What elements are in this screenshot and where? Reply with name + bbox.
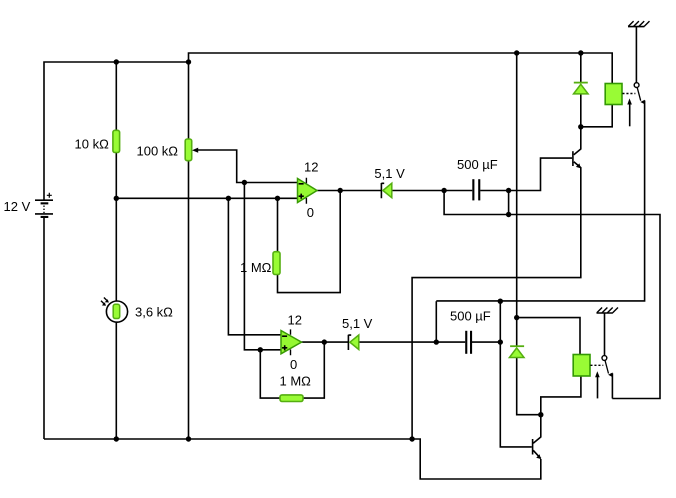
wire left rail from battery + up and across top: [44, 62, 189, 200]
junction node: [409, 436, 414, 441]
junction node: [441, 188, 446, 193]
zener Z1 triangle: [383, 183, 392, 198]
junction node: [275, 196, 280, 201]
svg-text:500 µF: 500 µF: [457, 157, 498, 172]
ground top right: [628, 21, 650, 83]
junction node: [434, 339, 439, 344]
junction node: [114, 436, 119, 441]
wire rail below D4 to Q2 collector node: [517, 358, 541, 415]
transistor Q1 base bar: [572, 151, 574, 166]
photoresistor LDR circle: [106, 301, 127, 322]
junction node: [338, 188, 343, 193]
junction node: [114, 59, 119, 64]
switch S1 left contact arrow: [627, 98, 632, 104]
svg-text:10 kΩ: 10 kΩ: [75, 137, 110, 152]
svg-text:1 MΩ: 1 MΩ: [280, 374, 312, 389]
switch S1 right contact arrow: [640, 100, 645, 105]
switch S2 pivot circle: [602, 356, 607, 361]
switch S2 blade: [605, 360, 609, 374]
op-amp U1 power ticks: [305, 178, 307, 204]
zener Z2 cathode bar with hook: [348, 335, 351, 350]
relay K2 coil: [573, 355, 590, 377]
wire +12 rail x=516 down to diode D4: [516, 53, 518, 346]
wire zener to cap C1: [392, 190, 473, 192]
wire Q1 collector: [574, 127, 581, 155]
switch S1 dashed link to relay K1: [622, 93, 635, 95]
wire Q2 emitter diagonal: [533, 450, 541, 458]
wire LDR bottom lead: [115, 322, 117, 439]
switch S1 left contact stub: [629, 104, 631, 127]
svg-text:1 MΩ: 1 MΩ: [240, 260, 272, 275]
op-amp U2 plus marker: [282, 345, 287, 350]
relay K1 coil: [605, 84, 622, 105]
battery B1 plate short thick top: [41, 202, 49, 204]
wire relay K2 bottom to Q2 collector node: [541, 376, 581, 415]
wire battery minus down to bottom rail: [43, 218, 45, 440]
op-amp U1 minus marker: [299, 183, 304, 185]
wire divider node down to U2 - input: [228, 198, 281, 334]
op-amp U1 triangle: [298, 179, 318, 203]
op-amp U2 power ticks: [290, 329, 292, 355]
switch S2 left contact stub: [597, 376, 599, 398]
wire divider node to op-amp U1 + input: [116, 197, 297, 199]
junction node: [186, 436, 191, 441]
wire relay K1 bottom to node: [581, 105, 612, 127]
wire C2 left plate up to S1 contact line: [435, 301, 437, 342]
wire rail x=500 from S1 line down to Q2 base: [500, 301, 532, 447]
wire +12 top rail y=53 to relay K1: [189, 53, 613, 84]
switch S2 right contact arrow: [608, 373, 613, 378]
junction node: [498, 339, 503, 344]
junction node: [322, 339, 327, 344]
wire diode D3 bottom lead: [580, 94, 582, 127]
photoresistor light arrow 2: [101, 301, 104, 304]
resistor R2 100k body: [185, 139, 192, 161]
wire zener Z2 to cap C2: [359, 341, 465, 343]
svg-text:5,1 V: 5,1 V: [342, 316, 373, 331]
junction node: [578, 50, 583, 55]
wire C2 right plate to rail x=500: [472, 341, 500, 343]
capacitor C2 plates: [465, 331, 467, 354]
switch S1 pivot circle: [634, 83, 639, 88]
wire 10k top lead: [115, 62, 117, 130]
op-amp U2 triangle: [281, 331, 302, 354]
svg-text:500 µF: 500 µF: [450, 309, 491, 324]
junction node: [514, 315, 519, 320]
transistor Q2 base bar: [532, 439, 534, 455]
capacitor C1 plates: [472, 179, 474, 200]
diode D3 cathode bar: [574, 82, 588, 84]
battery B1 dotted middle link: [43, 206, 45, 214]
diode D4 triangle: [509, 348, 524, 358]
junction node: [226, 196, 231, 201]
switch S2 right contact wire: [611, 373, 613, 398]
wire 100k bottom lead to bottom rail: [188, 161, 190, 439]
diode D3 triangle: [574, 84, 589, 94]
wire C1 right to Q1 base: [480, 158, 572, 190]
wire wiper net down to U2 + input: [244, 183, 281, 350]
wire 100k wiper to U1 - input: [198, 150, 298, 183]
wire LDR top lead: [115, 198, 117, 301]
wire bypass path C1 left down right side to switch S2 contact: [444, 191, 660, 399]
diode D4 cathode bar: [510, 345, 524, 347]
battery B1 12V plate long top: [35, 199, 53, 201]
battery B1 plus sign: [47, 193, 52, 198]
svg-text:0: 0: [290, 357, 297, 372]
op-amp U1 plus marker: [299, 194, 304, 199]
wire feedback R 1M upper leads: [278, 191, 341, 293]
battery B1 plate short thick bottom: [41, 216, 49, 218]
junction node: [242, 180, 247, 185]
junction node: [514, 50, 519, 55]
photoresistor light arrow 1: [104, 298, 107, 301]
junction node: [578, 124, 583, 129]
svg-text:12: 12: [304, 160, 318, 175]
switch S1 right contact wire down to S2 line: [436, 101, 644, 301]
resistor R3 1M body: [273, 252, 280, 275]
transistor Q1 emitter arrow: [576, 163, 581, 168]
zener Z1 cathode bar with hook: [381, 183, 384, 198]
svg-text:3,6 kΩ: 3,6 kΩ: [135, 305, 173, 320]
wire U1 output to zener: [317, 190, 381, 192]
junction node: [506, 188, 511, 193]
svg-text:12 V: 12 V: [4, 199, 31, 214]
wire feedback R 1M lower loop: [260, 342, 324, 398]
switch S1 blade: [637, 87, 641, 101]
resistor R4 1M body horizontal: [280, 395, 303, 402]
wire Q2 collector: [533, 415, 541, 444]
wire bottom rail with jog to Q2 emitter: [44, 439, 541, 479]
svg-text:12: 12: [288, 313, 302, 328]
wire C1 right plate to bypass line: [508, 191, 510, 215]
junction node: [538, 412, 543, 417]
wire 100k top lead: [188, 62, 190, 139]
wire diode D3 top lead: [580, 53, 582, 82]
junction node: [258, 347, 263, 352]
junction node: [506, 212, 511, 217]
junction node: [498, 299, 503, 304]
wire U2 output to zener Z2: [302, 341, 349, 343]
svg-text:0: 0: [307, 205, 314, 220]
transistor Q2 emitter arrow: [536, 454, 541, 459]
op-amp U2 minus marker: [282, 335, 287, 337]
wire relay K2 top tap from +12 rail: [517, 318, 580, 355]
junction node: [186, 59, 191, 64]
switch S2 left contact arrow: [595, 371, 600, 377]
switch S2 dashed link to relay K2: [590, 364, 603, 366]
svg-text:5,1 V: 5,1 V: [374, 166, 405, 181]
wire Q1 emitter down and across to bottom rail: [412, 162, 581, 439]
resistor R1 10k body: [113, 130, 120, 152]
ground lower right: [597, 308, 619, 356]
photoresistor LDR body: [113, 304, 120, 318]
svg-text:100 kΩ: 100 kΩ: [137, 144, 179, 159]
battery B1 plate long bottom: [35, 213, 53, 215]
wire 10k bottom lead: [115, 153, 117, 199]
junction node: [114, 196, 119, 201]
zener Z2 triangle: [350, 335, 359, 350]
potentiometer wiper arrow on R2: [192, 148, 198, 153]
